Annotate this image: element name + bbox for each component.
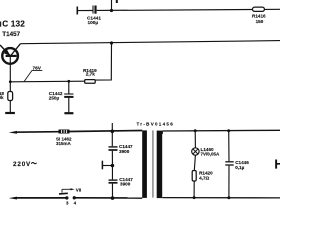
svg-text:7V/0,05A: 7V/0,05A <box>201 151 221 156</box>
svg-text:Si 1462: Si 1462 <box>56 136 72 141</box>
svg-text:315mA: 315mA <box>56 141 72 146</box>
svg-text:0,1µ: 0,1µ <box>235 165 244 170</box>
svg-text:220V: 220V <box>13 161 31 168</box>
svg-text:4,7Ω: 4,7Ω <box>199 176 209 181</box>
svg-text:VII: VII <box>76 188 82 193</box>
svg-text:C 132: C 132 <box>2 20 25 29</box>
svg-text:250µ: 250µ <box>49 95 60 100</box>
svg-text:76V: 76V <box>33 66 42 72</box>
svg-text:C1446: C1446 <box>235 160 249 165</box>
svg-text:R1416: R1416 <box>252 14 266 19</box>
svg-text:T1457: T1457 <box>2 31 20 38</box>
svg-text:H: H <box>274 157 280 171</box>
svg-text:2,7k: 2,7k <box>86 72 95 77</box>
svg-text:150: 150 <box>256 19 264 24</box>
svg-text:R1420: R1420 <box>199 170 213 175</box>
svg-text:0k: 0k <box>0 95 4 100</box>
svg-text:C1447: C1447 <box>119 177 133 182</box>
svg-text:Tr-BV01456: Tr-BV01456 <box>137 122 175 127</box>
svg-text:C1447: C1447 <box>119 144 133 149</box>
svg-text:3900: 3900 <box>119 149 130 154</box>
svg-text:3900: 3900 <box>120 182 131 187</box>
svg-text:C1441: C1441 <box>87 16 101 22</box>
svg-text:100µ: 100µ <box>88 20 99 26</box>
